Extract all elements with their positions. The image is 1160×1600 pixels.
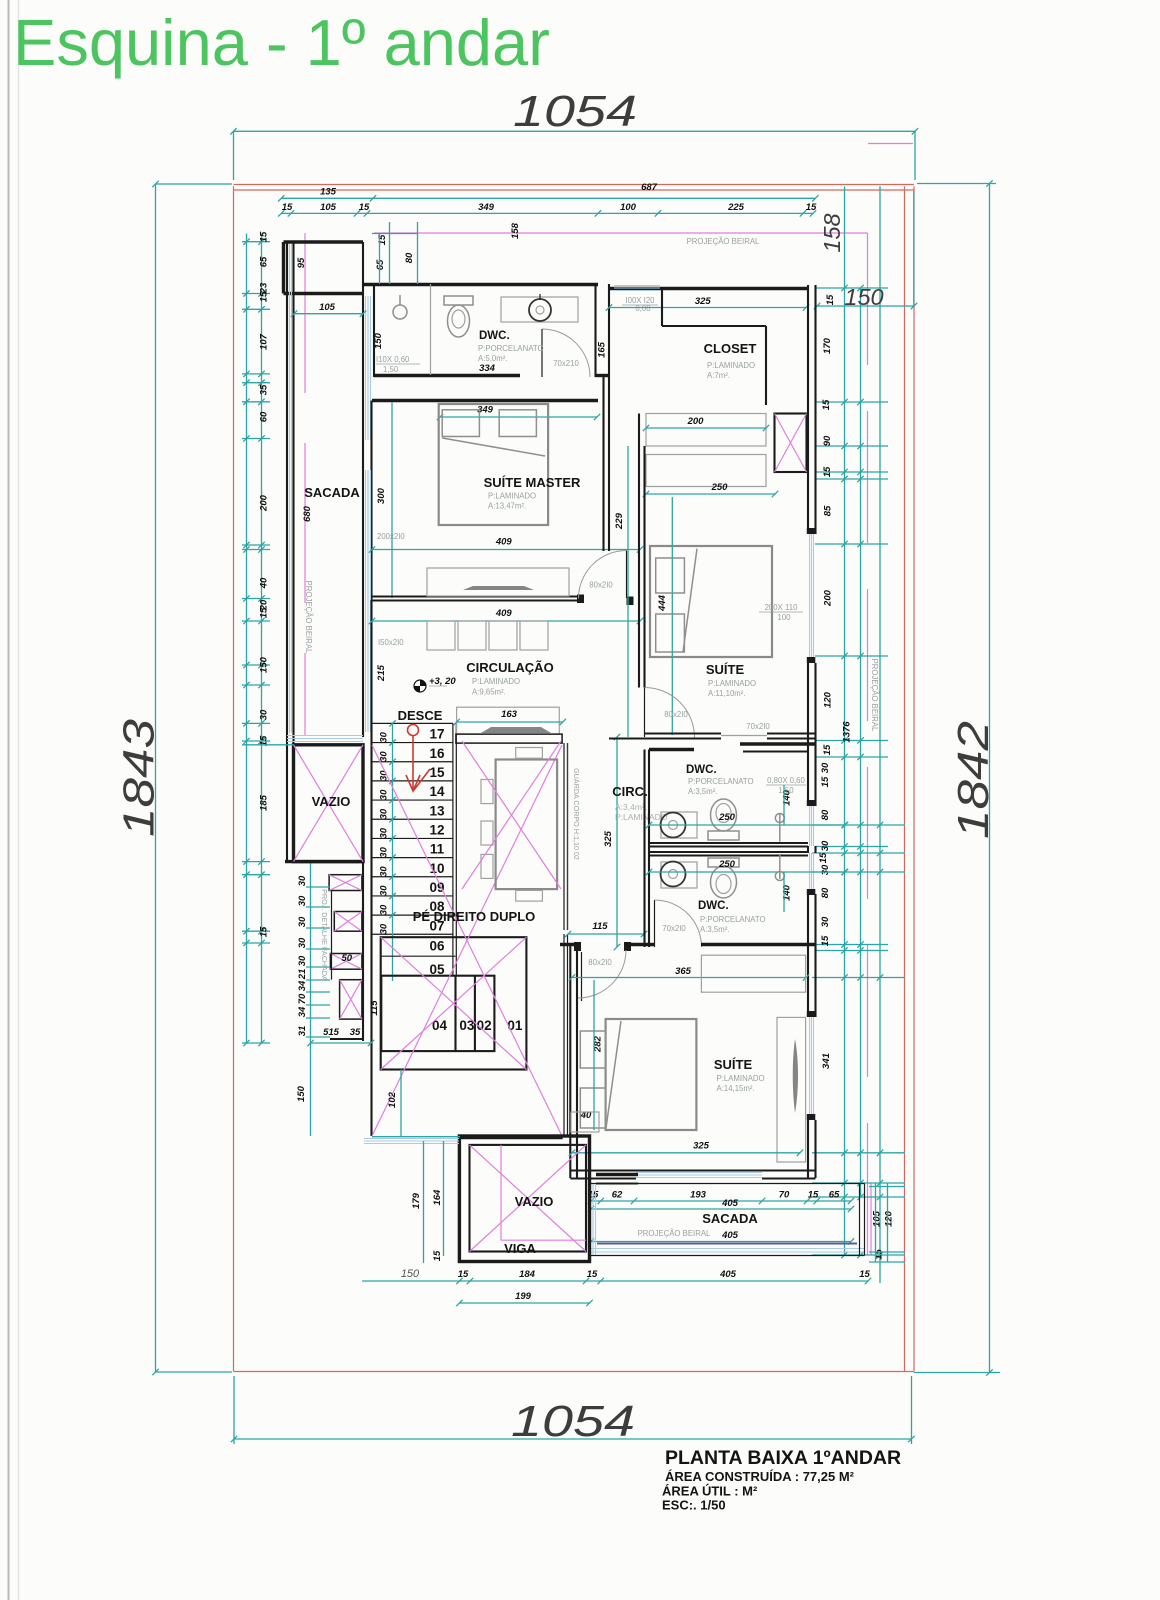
dim 185 15 row [242, 744, 294, 746]
dwc1 towel bar [775, 814, 784, 823]
svg-text:30: 30 [297, 895, 308, 906]
dim 250 dwc2 [649, 871, 845, 873]
wall below vazio [285, 860, 363, 863]
svg-text:30: 30 [820, 762, 831, 773]
svg-text:65: 65 [375, 259, 386, 270]
wardrobe suite [646, 455, 766, 487]
svg-text:A:5,0m².: A:5,0m². [478, 354, 507, 363]
svg-text:150: 150 [296, 1085, 307, 1102]
svg-text:30: 30 [297, 875, 308, 886]
svg-text:70: 70 [297, 993, 308, 1004]
door dwc2 [654, 900, 656, 947]
svg-text:P:LAMINADO: P:LAMINADO [708, 679, 756, 688]
svg-text:325: 325 [603, 830, 614, 847]
blue band left of vazio [364, 1138, 459, 1140]
sacada right end [859, 1184, 861, 1256]
red outline right double [904, 186, 906, 1371]
svg-text:A:9,65m².: A:9,65m². [472, 688, 506, 697]
stair lower block outer [381, 937, 527, 1069]
dwc washbasin [529, 299, 551, 321]
vazio bottom outer [459, 1136, 589, 1262]
vazio upper box [294, 745, 364, 862]
door suite master 80x210 [626, 551, 628, 599]
dim 1054 bottom [234, 1438, 912, 1440]
svg-text:30: 30 [379, 846, 390, 857]
svg-text:680: 680 [302, 505, 313, 522]
wall suite left double [638, 414, 640, 688]
beiral dark line [597, 1243, 857, 1245]
wall suite master top [372, 399, 598, 402]
svg-text:405: 405 [721, 1198, 739, 1209]
red outline top double [234, 184, 915, 186]
suite wardrobe top [701, 955, 805, 992]
wall east double [807, 285, 809, 534]
wall sacada-vazio link [596, 1173, 638, 1176]
svg-text:35: 35 [350, 1027, 361, 1038]
magenta X lower block [381, 937, 527, 1069]
dwc2 toilet [708, 858, 739, 867]
svg-text:14: 14 [429, 784, 445, 799]
svg-text:250: 250 [718, 812, 736, 823]
svg-text:15: 15 [259, 607, 270, 618]
svg-text:80x2I0: 80x2I0 [588, 958, 612, 967]
svg-text:62: 62 [612, 1190, 623, 1201]
svg-text:365: 365 [675, 966, 692, 977]
svg-text:16: 16 [429, 746, 445, 761]
svg-text:PROJEÇÃO BEIRAL: PROJEÇÃO BEIRAL [687, 237, 760, 246]
dim 409 circulacao [372, 620, 640, 622]
projecao beiral right line [867, 233, 869, 1255]
dwc1 toilet [708, 831, 739, 840]
svg-text:21: 21 [297, 969, 308, 981]
svg-text:115: 115 [369, 1000, 380, 1016]
wall dwc west double [643, 750, 645, 948]
stair treads [372, 722, 453, 724]
svg-text:DWC.: DWC. [686, 764, 717, 776]
svg-text:SUÍTE MASTER: SUÍTE MASTER [484, 475, 581, 490]
svg-text:80: 80 [820, 887, 831, 898]
svg-text:A:3,4m².: A:3,4m². [615, 802, 647, 812]
svg-text:15: 15 [359, 202, 370, 213]
svg-text:30: 30 [379, 904, 390, 915]
dwc counter [501, 297, 578, 322]
svg-text:70x210: 70x210 [553, 359, 579, 368]
svg-text:P:LAMINADO: P:LAMINADO [488, 492, 536, 501]
svg-text:I50x2I0: I50x2I0 [378, 638, 404, 647]
svg-text:P:LAMINADO: P:LAMINADO [472, 677, 520, 686]
dim 105 sacada [294, 313, 363, 315]
wall notches between shafts [331, 891, 333, 980]
svg-text:100: 100 [620, 202, 637, 213]
dim 325 bottom [572, 1152, 800, 1154]
svg-text:229: 229 [614, 512, 625, 530]
svg-text:30: 30 [820, 840, 831, 851]
svg-text:30: 30 [297, 916, 308, 927]
svg-text:70: 70 [779, 1190, 790, 1201]
svg-text:687: 687 [641, 182, 658, 193]
wardrobe closet [646, 414, 766, 447]
svg-text:30: 30 [379, 923, 390, 934]
svg-text:200X 110: 200X 110 [765, 603, 798, 612]
sacada bottom top edge [590, 1183, 865, 1185]
svg-text:150: 150 [401, 1268, 420, 1280]
svg-text:P:PORCELANATO: P:PORCELANATO [700, 915, 766, 924]
wall center spine upper [594, 284, 596, 377]
svg-text:341: 341 [821, 1053, 832, 1069]
svg-text:35: 35 [259, 384, 270, 395]
svg-text:SACADA: SACADA [702, 1211, 758, 1226]
svg-text:15: 15 [820, 935, 831, 946]
svg-text:DESCE: DESCE [398, 708, 443, 723]
svg-text:PÉ DIREITO DUPLO: PÉ DIREITO DUPLO [413, 909, 536, 924]
beiral crossing vazio [500, 1145, 502, 1240]
svg-text:30: 30 [820, 916, 831, 927]
projecao beiral top-right stub [868, 143, 913, 145]
svg-text:60: 60 [259, 411, 270, 422]
dim 115 circ [568, 933, 644, 935]
svg-text:CIRCULAÇÃO: CIRCULAÇÃO [466, 660, 553, 675]
svg-text:185: 185 [259, 794, 270, 811]
svg-text:1054: 1054 [513, 87, 637, 136]
svg-text:184: 184 [519, 1269, 536, 1280]
svg-text:PROJ. DETALHE FACHADA: PROJ. DETALHE FACHADA [320, 889, 329, 981]
svg-text:34: 34 [297, 980, 308, 991]
svg-text:Esquina - 1º andar: Esquina - 1º andar [13, 6, 550, 79]
svg-text:1842: 1842 [949, 721, 998, 839]
svg-text:199: 199 [515, 1291, 532, 1302]
suite bed [650, 546, 772, 657]
svg-text:15: 15 [820, 776, 831, 787]
svg-text:DWC.: DWC. [698, 900, 729, 912]
svg-text:70x2I0: 70x2I0 [662, 924, 686, 933]
svg-text:30: 30 [379, 827, 390, 838]
door arc dwc 70x210 [542, 329, 590, 377]
svg-text:200: 200 [687, 416, 705, 427]
svg-text:A:13,47m².: A:13,47m². [488, 502, 526, 511]
magenta X void [462, 741, 561, 889]
bottom suite bed [606, 1019, 697, 1130]
svg-text:05: 05 [429, 962, 445, 977]
vazio left dims [423, 1141, 425, 1263]
svg-text:GUARDA CORPO H:1,10 02: GUARDA CORPO H:1,10 02 [572, 768, 581, 860]
svg-text:65: 65 [829, 1190, 840, 1201]
stair lower inner void [381, 976, 494, 1051]
svg-text:ÁREA ÚTIL : M²: ÁREA ÚTIL : M² [662, 1484, 758, 1499]
svg-text:1843: 1843 [115, 718, 164, 837]
svg-text:30: 30 [820, 864, 831, 875]
svg-text:405: 405 [721, 1230, 739, 1241]
svg-text:VIGA: VIGA [504, 1241, 536, 1256]
svg-text:31: 31 [297, 1026, 308, 1037]
svg-text:30: 30 [379, 808, 390, 819]
svg-text:30: 30 [297, 955, 308, 966]
left ladder B labels 30s [310, 862, 312, 1136]
svg-text:325: 325 [695, 296, 712, 307]
dining table [496, 760, 557, 890]
svg-text:107: 107 [259, 333, 270, 350]
suite master left window [365, 470, 367, 600]
magenta X vazio bottom [470, 1145, 587, 1252]
svg-text:SUÍTE: SUÍTE [706, 662, 745, 677]
svg-text:15: 15 [377, 234, 388, 245]
vazio bottom inner [470, 1145, 587, 1252]
svg-text:15: 15 [822, 744, 833, 755]
dim 1842 right [989, 184, 991, 1373]
red descent arrow [408, 725, 419, 736]
svg-text:158: 158 [510, 222, 521, 239]
svg-text:444: 444 [657, 594, 668, 612]
svg-text:409: 409 [495, 608, 513, 619]
svg-text:170: 170 [822, 337, 833, 354]
svg-text:409: 409 [495, 537, 513, 548]
stair east line [452, 723, 454, 975]
svg-text:80x2I0: 80x2I0 [589, 581, 613, 590]
dim 325 circ vertical [616, 737, 618, 947]
svg-text:165: 165 [597, 341, 608, 358]
svg-text:15: 15 [282, 202, 293, 213]
svg-text:325: 325 [693, 1141, 710, 1152]
svg-text:40: 40 [259, 577, 270, 589]
wall spine mid [602, 377, 604, 551]
svg-text:105: 105 [319, 302, 336, 313]
svg-text:DWC.: DWC. [479, 330, 510, 342]
wall bottom suite bottom [570, 1169, 815, 1171]
svg-text:1376: 1376 [842, 721, 853, 743]
svg-text:30: 30 [379, 731, 390, 742]
svg-text:11: 11 [430, 842, 445, 857]
svg-text:15: 15 [806, 202, 817, 213]
magenta X stairwell [372, 745, 562, 1136]
svg-text:70x2I0: 70x2I0 [746, 722, 770, 731]
svg-text:215: 215 [376, 664, 387, 682]
dim 405 a [591, 1208, 851, 1210]
east wall jamb stubs [807, 528, 816, 534]
svg-text:405: 405 [719, 1269, 737, 1280]
wall bottom suite left [569, 945, 571, 1179]
wall bottom suite top [560, 943, 578, 946]
svg-text:15: 15 [808, 1190, 819, 1201]
svg-text:1,50: 1,50 [383, 365, 399, 374]
dim row 15 105 15 349 100 225 15 [281, 212, 813, 214]
svg-text:250: 250 [718, 859, 736, 870]
east wall window glazing [809, 534, 811, 663]
dim 199 [459, 1302, 589, 1304]
svg-text:01: 01 [507, 1018, 523, 1033]
svg-text:15: 15 [825, 294, 836, 305]
dim 250 suite [646, 493, 775, 495]
red outline bottom [234, 1371, 915, 1373]
stair lower dividers [454, 976, 456, 1051]
left dim ladder lines [246, 234, 248, 1044]
wall closet interior L [661, 289, 663, 327]
svg-text:105: 105 [872, 1210, 883, 1227]
svg-text:150: 150 [259, 656, 270, 673]
svg-text:300: 300 [376, 487, 387, 504]
stair west wall double [362, 745, 364, 1041]
svg-text:30: 30 [379, 866, 390, 877]
svg-text:0,80X 0,60: 0,80X 0,60 [767, 776, 805, 785]
svg-text:06: 06 [429, 939, 445, 954]
svg-text:15: 15 [458, 1269, 469, 1280]
svg-text:50: 50 [342, 953, 353, 964]
bedside niche [571, 1112, 599, 1132]
dim 325 closet [609, 307, 806, 309]
svg-text:A:14,15m².: A:14,15m². [717, 1084, 755, 1093]
svg-text:15: 15 [822, 466, 833, 477]
svg-text:A:11,10m².: A:11,10m². [708, 689, 746, 698]
svg-text:PLANTA BAIXA 1ºANDAR: PLANTA BAIXA 1ºANDAR [665, 1447, 901, 1469]
svg-text:15: 15 [259, 926, 270, 937]
shaft boxes with X [329, 875, 362, 891]
svg-text:150: 150 [373, 332, 384, 349]
dwc1 sink [661, 812, 697, 838]
table end pieces [516, 748, 543, 759]
wall dwc divider [649, 842, 808, 844]
svg-text:P:PORCELANATO: P:PORCELANATO [688, 777, 754, 786]
svg-text:65: 65 [259, 256, 270, 267]
dwc toilet [444, 296, 473, 305]
svg-text:105: 105 [320, 202, 337, 213]
dim 365 [572, 977, 806, 979]
suite master sideboard [427, 568, 569, 596]
svg-text:85: 85 [823, 505, 834, 516]
guard rail [563, 743, 565, 930]
svg-text:120: 120 [883, 1210, 894, 1227]
svg-text:179: 179 [411, 1192, 422, 1209]
dining chairs [481, 780, 493, 804]
svg-text:120: 120 [823, 691, 834, 708]
right bottom dim lines [875, 1183, 877, 1262]
sacada bottom floor lines [591, 1248, 864, 1250]
dim 409 suite master [372, 549, 640, 551]
svg-text:SACADA: SACADA [304, 485, 360, 500]
svg-text:200x2I0: 200x2I0 [377, 532, 405, 541]
dim 250 dwc1 [649, 824, 845, 826]
svg-text:0,00: 0,00 [635, 304, 651, 313]
door suite bottom 70x210 [721, 735, 767, 737]
projecao beiral top line [374, 232, 868, 234]
svg-text:A:3,5m².: A:3,5m². [688, 787, 717, 796]
svg-text:30: 30 [379, 751, 390, 762]
sideboard with 163 [457, 707, 560, 734]
suite master bed [439, 404, 548, 525]
svg-text:15: 15 [818, 852, 829, 863]
svg-text:225: 225 [727, 202, 745, 213]
stair dim 30 ladder [392, 723, 394, 981]
svg-text:1054: 1054 [511, 1397, 635, 1446]
magenta X vazio upper [294, 745, 364, 862]
svg-text:A:7m².: A:7m². [707, 371, 730, 380]
wall east of lower stair [563, 934, 565, 1136]
wall sacada top room [284, 240, 364, 243]
svg-text:90: 90 [822, 435, 833, 446]
svg-text:163: 163 [501, 709, 518, 720]
wall dwc1 top [649, 748, 694, 751]
svg-text:30: 30 [379, 789, 390, 800]
dim 163 [457, 721, 563, 723]
svg-text:115: 115 [592, 921, 608, 932]
dim 200 [646, 427, 766, 429]
door suite arc [644, 688, 646, 738]
sacada west hatch [289, 244, 291, 733]
svg-text:VAZIO: VAZIO [515, 1194, 554, 1209]
wall suite master bottom [372, 595, 584, 597]
svg-text:P:LAMINADO: P:LAMINADO [707, 361, 755, 370]
dim row 135/687 [281, 197, 815, 199]
svg-text:349: 349 [478, 202, 495, 213]
tall wardrobe right [777, 1017, 806, 1162]
sacada east glazing [365, 296, 367, 440]
closet top window [614, 285, 660, 287]
wall closet top [609, 287, 807, 290]
svg-text:A:3,5m².: A:3,5m². [700, 925, 729, 934]
wall dwc bottom [374, 374, 520, 377]
right dim ladder lines [844, 186, 846, 1255]
red outline left [233, 186, 235, 1371]
svg-text:95: 95 [296, 257, 307, 268]
svg-text:CIRC.: CIRC. [612, 784, 647, 799]
wall bottom stair shaft [330, 1038, 363, 1040]
svg-text:30: 30 [259, 709, 270, 720]
svg-text:P:LAMINADO: P:LAMINADO [717, 1074, 765, 1083]
wall suite bottom [645, 732, 722, 734]
wall dwc top [363, 283, 598, 286]
dim 1843 left [155, 184, 157, 1372]
svg-text:ESC:. 1/50: ESC:. 1/50 [662, 1498, 726, 1513]
dim row 15 184 15 [459, 1280, 868, 1282]
door bottom suite [581, 952, 583, 1001]
svg-text:135: 135 [320, 187, 337, 198]
sacada floor bottom lines [287, 735, 363, 737]
dwc2 towel bar [775, 872, 784, 881]
svg-text:15: 15 [587, 1269, 598, 1280]
svg-text:SUÍTE: SUÍTE [714, 1057, 753, 1072]
svg-text:PROJEÇÃO BEIRAL: PROJEÇÃO BEIRAL [304, 581, 313, 654]
shower partition dwc [430, 284, 432, 375]
circulacao sofa modules [427, 621, 455, 650]
sacada left glazing [590, 1184, 592, 1255]
svg-text:17: 17 [429, 727, 444, 742]
sacada bottom dims row [591, 1200, 851, 1202]
svg-text:193: 193 [690, 1190, 707, 1201]
svg-text:158: 158 [819, 213, 845, 252]
svg-text:15: 15 [259, 291, 270, 302]
scanner edge left [8, 0, 10, 1600]
svg-text:34: 34 [297, 1006, 308, 1017]
svg-text:VAZIO: VAZIO [312, 794, 351, 809]
svg-text:200: 200 [823, 589, 834, 607]
wall top link vazio [459, 1136, 562, 1139]
projecao beiral left line [304, 233, 306, 735]
level marker +3,20 [414, 680, 426, 692]
svg-text:100: 100 [777, 613, 791, 622]
svg-text:30: 30 [379, 885, 390, 896]
svg-text:ÁREA CONSTRUÍDA : 77,25 M²: ÁREA CONSTRUÍDA : 77,25 M² [665, 1469, 855, 1484]
dim 349 suite master [440, 416, 597, 418]
svg-text:15: 15 [859, 1269, 870, 1280]
svg-text:P:PORCELANATO: P:PORCELANATO [478, 344, 544, 353]
svg-text:I10X 0,60: I10X 0,60 [376, 355, 410, 364]
svg-text:P:LAMINADO: P:LAMINADO [615, 812, 668, 822]
svg-text:PROJEÇÃO BEIRAL: PROJEÇÃO BEIRAL [638, 1229, 711, 1238]
svg-text:15: 15 [821, 399, 832, 410]
svg-text:30: 30 [379, 770, 390, 781]
svg-text:80: 80 [404, 252, 415, 263]
svg-text:250: 250 [711, 482, 729, 493]
wall sacada west double [286, 242, 288, 862]
svg-text:09: 09 [429, 880, 444, 895]
svg-text:13: 13 [429, 803, 445, 818]
